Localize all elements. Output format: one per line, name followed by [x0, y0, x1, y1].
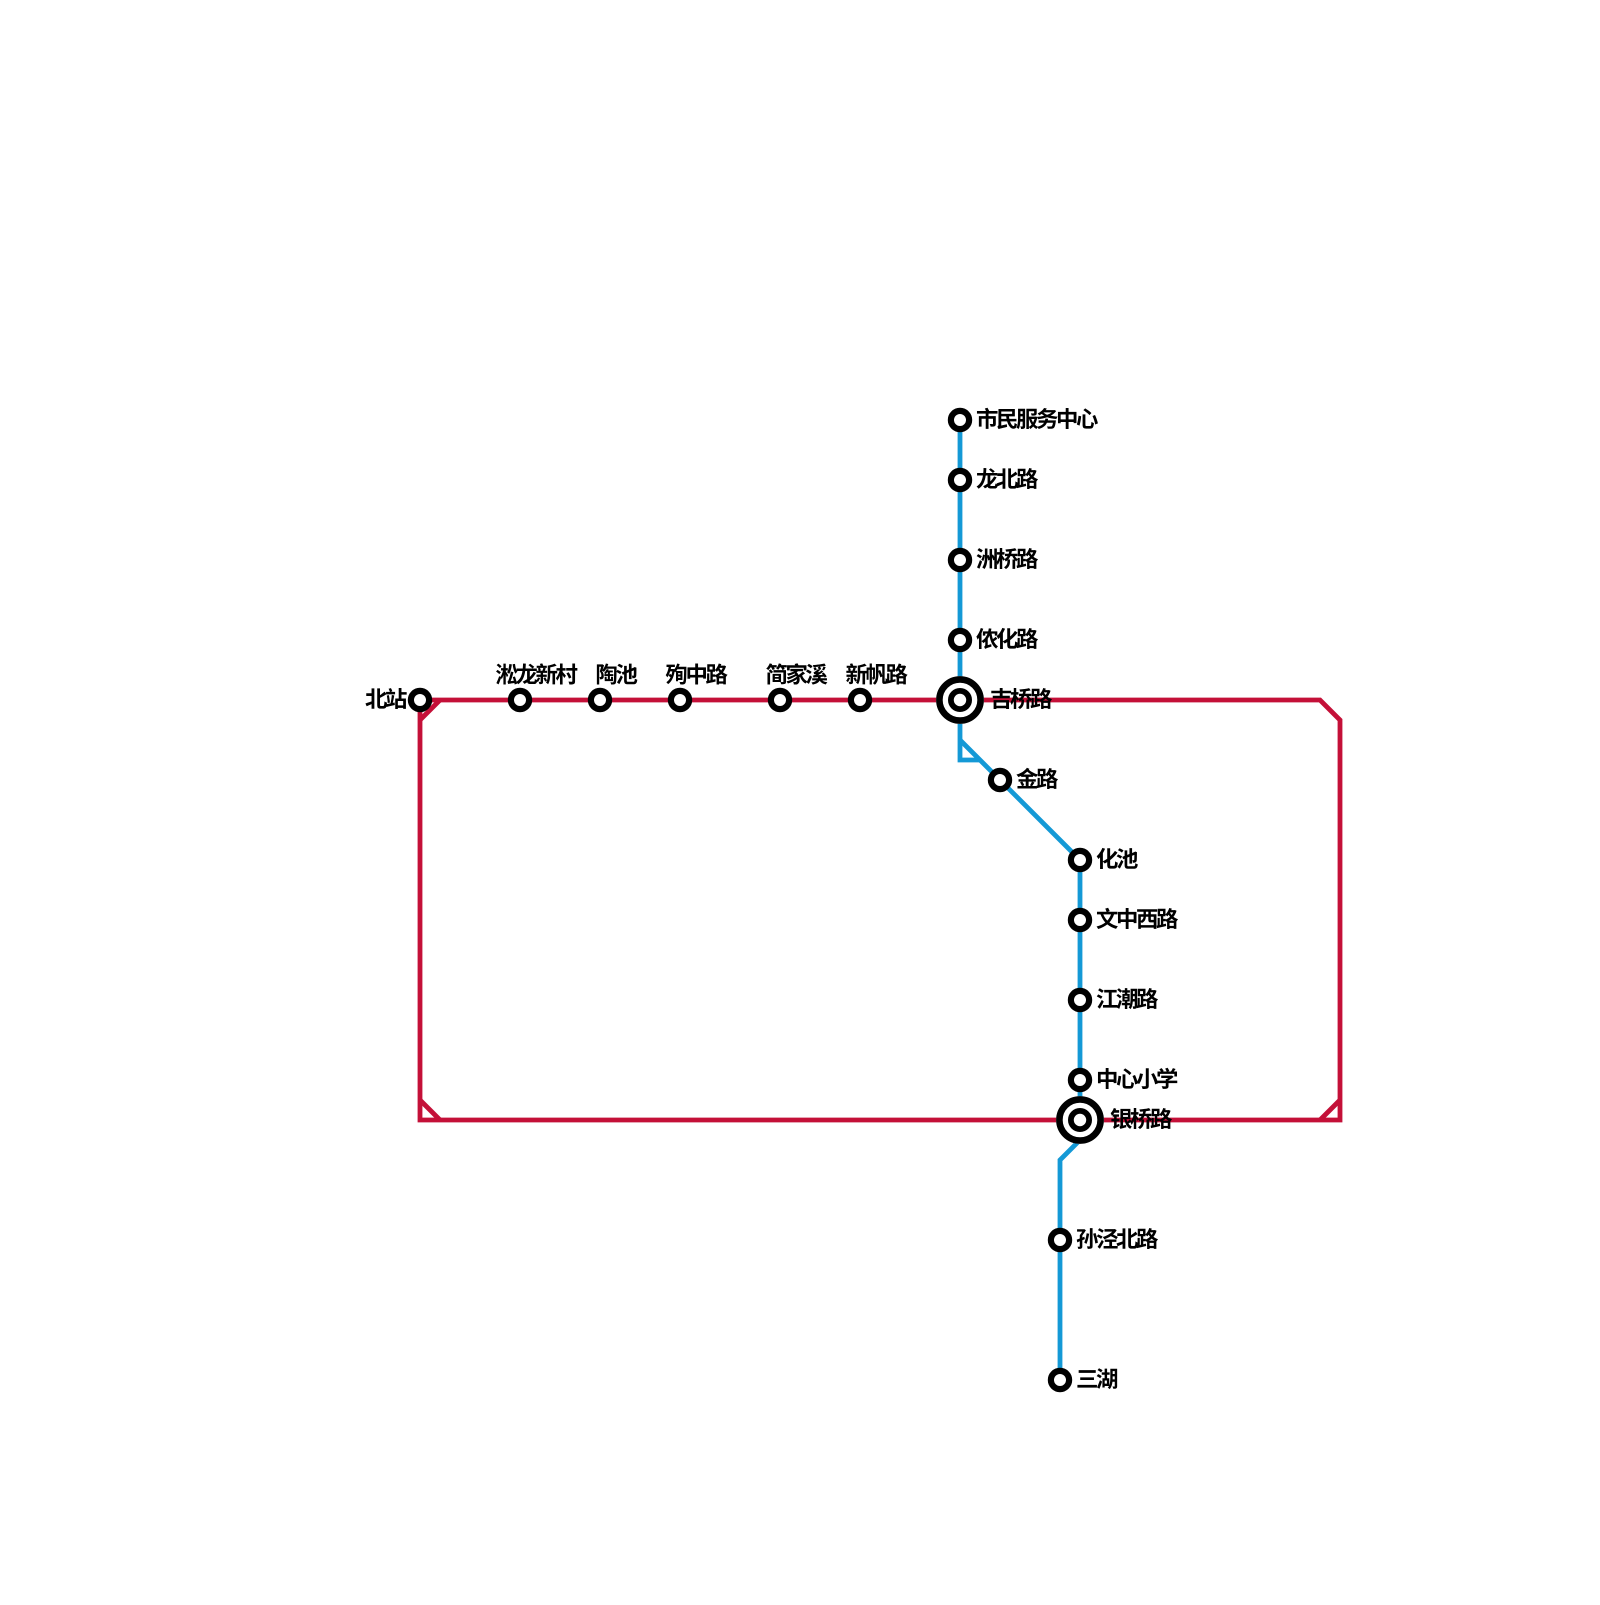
label 洲桥路 — [977, 548, 1038, 569]
label 市民服务中心 — [977, 408, 1098, 429]
station 陶池 — [591, 691, 609, 709]
station 新帆路 — [851, 691, 869, 709]
red loop line: closed loop 北站-吉桥路-银桥路 with beveled top-right corner — [420, 700, 1340, 1120]
label 简家溪 — [766, 663, 827, 684]
interchange station 银桥路 — [1056, 1096, 1104, 1144]
label 文中西路 — [1097, 908, 1179, 929]
label 陶池 — [597, 663, 637, 684]
station 金路 — [991, 771, 1009, 789]
station 简家溪 — [771, 691, 789, 709]
station 龙北路 — [951, 471, 969, 489]
blue line: diagonal through 金路 to 化池, down to 银桥路, bend to 孙泾北路 and 三湖 — [960, 740, 1080, 1380]
station 三湖 — [1051, 1371, 1069, 1389]
station 中心小学 — [1071, 1071, 1089, 1089]
label 新帆路 — [846, 663, 908, 684]
label 北站 — [365, 688, 406, 709]
label 化池 — [1097, 848, 1138, 869]
interchange station 吉桥路 — [936, 676, 984, 724]
red loop line: bottom-right bevel chord — [1320, 1100, 1340, 1120]
station 孙泾北路 — [1051, 1231, 1069, 1249]
label 吉桥路 — [991, 688, 1052, 709]
station 洲桥路 — [951, 551, 969, 569]
station 殉中路 — [671, 691, 689, 709]
label 江潮路 — [1097, 988, 1158, 1009]
station 文中西路 — [1071, 911, 1089, 929]
red loop line: bottom-left bevel chord — [420, 1100, 440, 1120]
station 淞龙新村 — [511, 691, 529, 709]
station 江潮路 — [1071, 991, 1089, 1009]
label 殉中路 — [666, 663, 728, 684]
label 淞龙新村 — [496, 663, 577, 684]
blue line: vertical trunk 市民服务中心..吉桥路 with corner overdraw stub — [960, 420, 980, 760]
station 侬化路 — [951, 631, 969, 649]
label 金路 — [1016, 768, 1058, 789]
station 化池 — [1071, 851, 1089, 869]
label 三湖 — [1077, 1368, 1117, 1389]
label 侬化路 — [976, 628, 1038, 649]
label 银桥路 — [1111, 1108, 1172, 1129]
label 龙北路 — [977, 468, 1039, 489]
station 北站 — [411, 691, 429, 709]
station 市民服务中心 — [951, 411, 969, 429]
red loop line: top-left bevel chord at 北站 — [420, 700, 440, 720]
label 中心小学 — [1098, 1068, 1177, 1089]
label 孙泾北路 — [1077, 1228, 1158, 1249]
